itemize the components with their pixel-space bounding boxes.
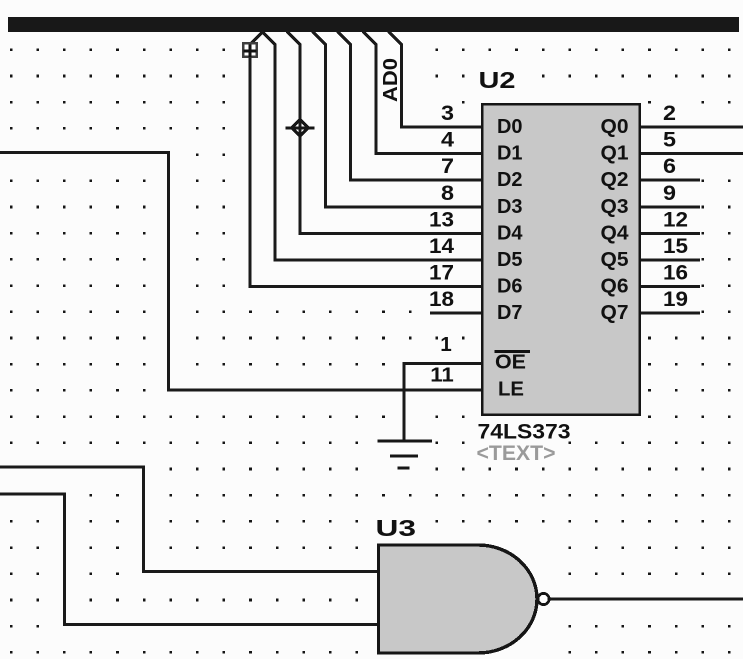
svg-text:16: 16 bbox=[663, 261, 688, 285]
svg-text:D7: D7 bbox=[497, 301, 523, 324]
wire AD7 drop to D0 bbox=[389, 32, 482, 128]
svg-text:D4: D4 bbox=[497, 221, 523, 244]
NAND gate U3 body bbox=[379, 545, 538, 653]
svg-text:Q1: Q1 bbox=[601, 142, 629, 165]
svg-text:3: 3 bbox=[441, 101, 454, 125]
svg-text:14: 14 bbox=[429, 234, 454, 258]
wire Q0 output bbox=[641, 126, 743, 129]
svg-text:2: 2 bbox=[663, 101, 676, 125]
wire AD1 drop to D6 bbox=[251, 32, 263, 44]
IC U2 74LS373 body bbox=[482, 104, 640, 415]
svg-text:4: 4 bbox=[441, 128, 454, 152]
wire Q1 output bbox=[641, 152, 743, 155]
wire AD5 drop to D2 bbox=[338, 32, 482, 181]
svg-text:LE: LE bbox=[498, 378, 524, 401]
origin crosshair marker bbox=[286, 120, 315, 136]
svg-text:D3: D3 bbox=[497, 195, 523, 218]
svg-text:D5: D5 bbox=[497, 248, 523, 271]
svg-text:9: 9 bbox=[663, 181, 676, 205]
svg-text:D1: D1 bbox=[497, 142, 523, 165]
wire LE from left edge bbox=[0, 153, 481, 390]
wire OE to ground bbox=[404, 364, 481, 442]
svg-text:1: 1 bbox=[440, 334, 452, 356]
svg-text:15: 15 bbox=[663, 234, 688, 258]
svg-text:D2: D2 bbox=[497, 168, 523, 191]
svg-text:D0: D0 bbox=[497, 115, 523, 138]
wire U3 output bbox=[550, 598, 743, 601]
svg-text:Q5: Q5 bbox=[601, 248, 629, 271]
svg-text:12: 12 bbox=[663, 207, 688, 231]
svg-text:Q7: Q7 bbox=[601, 301, 629, 324]
svg-text:13: 13 bbox=[429, 207, 454, 231]
svg-text:19: 19 bbox=[663, 287, 688, 311]
svg-text:Q4: Q4 bbox=[601, 221, 630, 244]
node marker (bus tap origin) bbox=[243, 43, 256, 57]
wire Q7 output bbox=[641, 312, 700, 315]
svg-text:11: 11 bbox=[430, 365, 454, 387]
svg-text:17: 17 bbox=[429, 261, 454, 285]
svg-text:18: 18 bbox=[429, 287, 454, 311]
svg-text:Q2: Q2 bbox=[601, 168, 629, 191]
wire AD4 drop to D3 bbox=[313, 32, 482, 207]
svg-text:Q6: Q6 bbox=[601, 275, 629, 298]
svg-text:6: 6 bbox=[663, 154, 676, 178]
svg-text:U2: U2 bbox=[479, 67, 516, 93]
ground symbol bbox=[378, 441, 433, 468]
svg-text:Q0: Q0 bbox=[601, 115, 629, 138]
svg-text:U3: U3 bbox=[376, 515, 417, 541]
bus BUS1 bbox=[8, 17, 739, 32]
svg-text:AD0: AD0 bbox=[380, 58, 402, 102]
svg-text:OE: OE bbox=[495, 351, 526, 374]
wire Q5 output bbox=[641, 259, 700, 262]
svg-text:Q3: Q3 bbox=[601, 195, 629, 218]
svg-text:74LS373: 74LS373 bbox=[478, 421, 571, 444]
wire AD6 drop to D1 bbox=[363, 32, 481, 154]
wire Q2 output bbox=[641, 179, 700, 182]
wire AD2 drop to D5 bbox=[262, 32, 481, 261]
wire Q3 output bbox=[641, 205, 700, 208]
wire NAND input B bbox=[0, 494, 380, 625]
wire Q4 output bbox=[641, 232, 700, 235]
svg-text:<TEXT>: <TEXT> bbox=[477, 442, 556, 465]
wire D7 stub bbox=[430, 312, 481, 315]
wire NAND input A bbox=[0, 467, 380, 571]
svg-text:5: 5 bbox=[663, 128, 676, 152]
wire AD3 drop to D4 bbox=[287, 32, 481, 234]
wire Q6 output bbox=[641, 285, 700, 288]
svg-text:8: 8 bbox=[441, 181, 454, 205]
U3 output bubble bbox=[538, 593, 549, 604]
svg-text:7: 7 bbox=[441, 154, 454, 178]
svg-text:D6: D6 bbox=[497, 275, 523, 298]
